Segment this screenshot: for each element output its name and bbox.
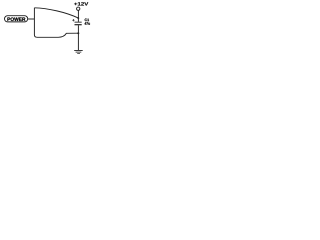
- capacitor C1 value label 47u: [85, 22, 90, 25]
- capacitor C1 name label: [85, 19, 89, 22]
- wire +12V rail: [77, 10, 79, 21]
- capacitor C1 top plate: [75, 21, 82, 24]
- ground: [74, 50, 83, 54]
- connector top contact wire to +12V rail: [34, 8, 78, 18]
- power label POWER: [5, 16, 28, 22]
- junction at ground rail and connector sleeve: [77, 32, 79, 34]
- wire POWER to connector: [28, 18, 35, 20]
- connector bottom contact wire to ground rail: [37, 33, 79, 37]
- junction at +12V rail and connector pin: [77, 17, 79, 19]
- capacitor C1 plus sign: [72, 19, 74, 21]
- wire capacitor to ground: [77, 25, 79, 50]
- +12V supply symbol: [77, 7, 80, 10]
- capacitor C1 bottom plate: [75, 24, 82, 25]
- +12V net label: [74, 2, 88, 5]
- connector left edge: [34, 8, 37, 38]
